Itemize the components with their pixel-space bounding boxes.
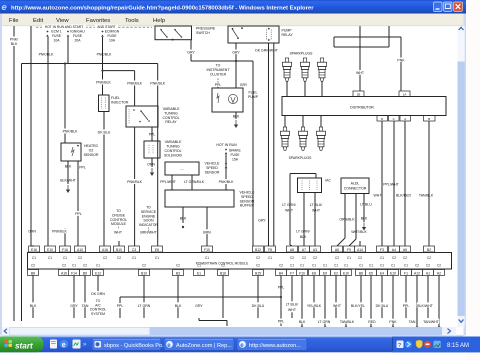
svg-text:BRAKE: BRAKE [229, 149, 241, 153]
IAC feed loop [290, 174, 316, 179]
svg-text:CONTROL: CONTROL [164, 149, 181, 153]
svg-text:GRY: GRY [187, 50, 195, 54]
menu bar [0, 14, 466, 27]
svg-text:LT GRN/BLK: LT GRN/BLK [184, 180, 205, 184]
wire GRY to B12 [236, 61, 253, 246]
svg-text:O2: O2 [89, 148, 94, 152]
svg-text:A14: A14 [357, 248, 363, 252]
bus elbow GRY [199, 318, 227, 326]
svg-text:C1: C1 [96, 264, 100, 268]
svg-text:BLK: BLK [361, 217, 368, 221]
svg-text:A16: A16 [61, 271, 67, 275]
label WHT row1 [333, 302, 342, 308]
distributor terminal 1A [399, 91, 410, 97]
svg-text:SERVICE: SERVICE [141, 210, 157, 214]
PCM bottom terminal B3 [173, 264, 184, 276]
O2 ground BLK BLK/WHT [60, 161, 76, 193]
ALDL connector [341, 178, 369, 194]
svg-text:PPL: PPL [149, 133, 156, 137]
svg-text:DK GRN/WHT: DK GRN/WHT [255, 48, 278, 52]
svg-text:TAN/BLK: TAN/BLK [340, 320, 355, 324]
svg-text:BLK: BLK [175, 304, 182, 308]
svg-text:BLK: BLK [233, 115, 240, 119]
PCM bottom terminal F7 [287, 264, 298, 276]
svg-text:SYSTEM: SYSTEM [91, 312, 105, 316]
spark plug bottom 2 [298, 116, 307, 151]
svg-text:CONTROL: CONTROL [110, 218, 127, 222]
dashed hot-in-run banner [36, 25, 152, 30]
svg-text:SPARKPLUGS: SPARKPLUGS [290, 52, 313, 56]
svg-text:E10: E10 [343, 271, 349, 275]
titlebar close button [454, 2, 463, 12]
svg-text:Help: Help [153, 18, 166, 24]
svg-text:B2: B2 [427, 248, 431, 252]
svg-text:SPARKPLUGS: SPARKPLUGS [289, 156, 312, 160]
svg-text:C2: C2 [31, 264, 35, 268]
svg-text:DK BLU: DK BLU [98, 131, 111, 135]
wire below PCM terminal x406 [405, 276, 407, 319]
label DK BLU row1 [250, 302, 266, 308]
svg-text:PNK/: PNK/ [10, 38, 18, 42]
svg-text:BLK: BLK [300, 235, 307, 239]
svg-text:?: ? [398, 343, 401, 349]
svg-text:C1: C1 [268, 256, 272, 260]
fuel pump relay [228, 26, 293, 43]
titlebar restore button [444, 2, 453, 12]
fuel pump ground BLK [233, 112, 240, 128]
svg-text:10A: 10A [53, 39, 60, 43]
label LT GRN row2 [316, 319, 332, 325]
spark plug top 2 [300, 58, 309, 97]
svg-text:TAN: TAN [82, 304, 89, 308]
fuel injector [99, 95, 129, 112]
svg-text:F9: F9 [347, 248, 351, 252]
wire LT GRN/BLK IAC to A7 [296, 193, 310, 247]
wire below PCM terminal x74 [73, 276, 75, 319]
svg-text:YEL/BLK: YEL/BLK [307, 304, 322, 308]
wire below PCM terminal x178 [177, 276, 179, 319]
svg-text:FUSE: FUSE [52, 34, 62, 38]
PCM top terminal E16 [29, 246, 40, 260]
svg-text:A1: A1 [426, 271, 430, 275]
svg-text:C1: C1 [334, 264, 338, 268]
wire PPL elbow down [113, 297, 127, 318]
svg-text:WHT: WHT [285, 209, 294, 213]
svg-text:C1: C1 [380, 264, 384, 268]
svg-text:PNK/BLK: PNK/BLK [127, 82, 142, 86]
wire PNK to distributor 1A [396, 37, 407, 91]
svg-text:A3: A3 [313, 248, 317, 252]
PCM top terminal A8 [287, 246, 298, 260]
wire below PCM terminal x258 [257, 276, 259, 319]
svg-text:F10: F10 [299, 271, 305, 275]
distributor terminal B [424, 116, 436, 122]
svg-text:....: .... [179, 166, 184, 171]
label TAN row2 [408, 319, 417, 325]
wire PPL O2 to A10 [74, 161, 86, 246]
wire relay out 2 [273, 43, 275, 246]
svg-text:LT GRN/: LT GRN/ [296, 230, 310, 234]
svg-text:WHT: WHT [333, 304, 342, 308]
svg-text:PPL/WHT: PPL/WHT [383, 183, 399, 187]
svg-text:HOT IN RUN: HOT IN RUN [216, 143, 237, 147]
label BLK row1 [174, 302, 183, 308]
svg-text:E1: E1 [197, 271, 201, 275]
svg-text:C1: C1 [300, 264, 304, 268]
label DK GRN/WHT relay [255, 47, 280, 52]
system tray [392, 337, 480, 353]
svg-text:LT BLU/: LT BLU/ [310, 203, 323, 207]
svg-text:B4: B4 [279, 271, 283, 275]
svg-text:C2: C2 [358, 256, 362, 260]
label LT GRN row1 [136, 302, 152, 308]
PCM bottom terminal F14 [69, 264, 80, 276]
label PPL row1 [402, 302, 411, 308]
wire GRY to fuel pump [236, 61, 248, 88]
svg-text:GRY: GRY [258, 219, 266, 223]
svg-text:C1: C1 [132, 256, 136, 260]
svg-text:C2: C2 [221, 264, 225, 268]
svg-text:C1: C1 [63, 256, 67, 260]
distributor terminal D [377, 116, 388, 122]
svg-text:ECM 1: ECM 1 [51, 30, 61, 34]
svg-text:INDICATOR: INDICATOR [139, 223, 158, 227]
PCM bottom terminal F1 [401, 264, 412, 276]
svg-text:ALDL: ALDL [351, 181, 360, 185]
wire below PCM terminal x336 [335, 276, 337, 319]
spark plug bottom 1 [280, 116, 289, 151]
svg-text:TAN: TAN [409, 320, 416, 324]
svg-text:BLK/WHT: BLK/WHT [417, 304, 433, 308]
PCM top terminal A6 [332, 246, 343, 260]
PCM top terminal B12 [253, 246, 264, 260]
svg-text:15A: 15A [232, 157, 239, 161]
svg-text:A7: A7 [302, 248, 306, 252]
svg-text:start: start [15, 341, 33, 350]
PCM bottom terminal E4 [377, 264, 388, 276]
svg-text:C1: C1 [72, 264, 76, 268]
svg-text:File: File [9, 18, 19, 24]
svg-text:C2: C2 [117, 256, 121, 260]
wire below PCM terminal x314 [313, 276, 315, 319]
note to cruise control module [110, 209, 127, 246]
wire left rail 3 [30, 26, 32, 246]
spark plug bottom 3 [316, 116, 325, 151]
PCM top terminal A5 [400, 246, 411, 260]
svg-text:FUEL: FUEL [249, 91, 258, 95]
wire below PCM terminal x223 [222, 276, 224, 319]
svg-text:E2: E2 [334, 271, 338, 275]
svg-text:C2: C2 [313, 256, 317, 260]
svg-text:C1: C1 [404, 264, 408, 268]
spark plug top 3 [317, 58, 326, 97]
PCM bottom terminal A12 [412, 264, 423, 276]
vertical scrollbar [458, 26, 465, 327]
svg-text:INSTRUMENT: INSTRUMENT [207, 68, 231, 72]
svg-text:C1: C1 [344, 264, 348, 268]
svg-text:TUNING: TUNING [166, 145, 180, 149]
wire ORN/BLK ALDL to A6 [337, 194, 355, 247]
svg-text:C1: C1 [48, 256, 52, 260]
svg-text:C1: C1 [155, 256, 159, 260]
PCM bottom terminal B9 [80, 264, 91, 276]
svg-text:PNK/BLK: PNK/BLK [150, 82, 165, 86]
svg-text:C2: C2 [426, 264, 430, 268]
svg-text:C1: C1 [347, 256, 351, 260]
PCM bottom terminal A1 [423, 264, 434, 276]
svg-text:PRESSURE: PRESSURE [196, 27, 216, 31]
PCM top terminal A14 [355, 246, 366, 260]
wire LT GRN/BLK vss [184, 175, 205, 190]
svg-text:PPL: PPL [403, 304, 410, 308]
svg-text:TAN/BLK: TAN/BLK [419, 194, 434, 198]
wire below PCM terminal x144 [143, 276, 145, 319]
svg-text:C1: C1 [205, 256, 209, 260]
svg-text:BUFFER: BUFFER [240, 204, 254, 208]
svg-text:C: C [393, 117, 395, 121]
note to service engine soon [139, 206, 158, 235]
svg-text:LT GRN: LT GRN [318, 320, 331, 324]
svg-text:C2: C2 [403, 256, 407, 260]
svg-text:C2: C2 [62, 264, 66, 268]
PCM bottom terminal B16 [218, 264, 229, 276]
wire PPL to fuel pump [215, 83, 222, 88]
svg-text:BLK: BLK [11, 42, 18, 46]
pressure switch (oil) [155, 26, 216, 41]
svg-text:BRN/WHT: BRN/WHT [140, 230, 157, 234]
wire below PCM terminal x428 [427, 276, 429, 319]
svg-text:C2: C2 [279, 264, 283, 268]
svg-text:B8: B8 [359, 271, 363, 275]
solenoid ground ORN [147, 158, 155, 176]
wire below PCM terminal x292 [291, 276, 293, 319]
svg-text:FUSE: FUSE [230, 153, 240, 157]
label RED row2 [368, 319, 377, 325]
svg-text:http://www.autozone.com/shoppi: http://www.autozone.com/shopping/repairG… [11, 5, 314, 11]
svg-text:A2: A2 [437, 271, 441, 275]
vehicle speed sensor buffer [165, 190, 255, 208]
svg-text:B9: B9 [83, 271, 87, 275]
wire LT BLU/WHT IAC to A3 [310, 193, 323, 247]
svg-text:IGN/GAU: IGN/GAU [70, 30, 85, 34]
wire horizontal y37 [334, 36, 401, 38]
bus horizontal y297 [120, 296, 281, 298]
label BLK row1 [29, 302, 38, 308]
svg-text:B16: B16 [220, 271, 226, 275]
svg-text:C2: C2 [427, 256, 431, 260]
svg-text:WHT/BLK: WHT/BLK [351, 230, 367, 234]
PCM bottom terminal E1 [194, 264, 205, 276]
quick launch icons [50, 340, 87, 350]
svg-text:10A: 10A [109, 39, 116, 43]
PCM bottom terminal B8 [28, 264, 39, 276]
svg-text:2B: 2B [357, 92, 361, 96]
svg-text:C2: C2 [415, 264, 419, 268]
window title bar [0, 0, 466, 14]
PCM bottom terminal A16 [59, 264, 70, 276]
fuel pump [212, 88, 259, 112]
variable tuning control solenoid [144, 140, 183, 158]
svg-text:C2: C2 [83, 264, 87, 268]
wire BLK/RED dist A to A5 [396, 121, 411, 246]
svg-text:e: e [167, 342, 171, 349]
svg-text:PPL: PPL [117, 304, 124, 308]
svg-text:TO: TO [216, 64, 221, 68]
svg-text:BRN: BRN [203, 230, 211, 234]
distributor terminal C [389, 116, 400, 122]
svg-text:SOON: SOON [143, 219, 154, 223]
svg-text:C2: C2 [290, 256, 294, 260]
svg-text:GRY: GRY [240, 83, 248, 87]
PCM bottom terminal E9 [320, 264, 331, 276]
svg-text:CLUSTER: CLUSTER [210, 73, 227, 77]
wire below PCM terminal x382 [381, 276, 383, 319]
svg-text:B12: B12 [255, 248, 261, 252]
svg-text:PPL: PPL [75, 212, 82, 216]
label TAN/BLK row2 [339, 319, 355, 325]
wire PPL/WHT vss [160, 175, 176, 190]
svg-text:A4: A4 [392, 248, 396, 252]
svg-text:FUEL: FUEL [111, 96, 120, 100]
svg-text:E9: E9 [323, 271, 327, 275]
svg-text:PNK/BLK: PNK/BLK [97, 53, 112, 57]
svg-text:SWITCH: SWITCH [196, 31, 210, 35]
svg-text:C1: C1 [32, 256, 36, 260]
svg-text:A8: A8 [290, 248, 294, 252]
svg-text:A10: A10 [77, 248, 83, 252]
svg-text:PPL: PPL [278, 320, 285, 324]
wire PPL relay to solenoid [149, 127, 156, 141]
svg-text:LT BLU: LT BLU [360, 203, 372, 207]
PCM top terminal A3 [310, 246, 321, 260]
svg-text:E12: E12 [95, 271, 101, 275]
svg-text:VEHICLE: VEHICLE [240, 191, 256, 195]
svg-text:ORN: ORN [28, 229, 36, 233]
svg-text:F8: F8 [268, 248, 272, 252]
wire below PCM terminal x417 [416, 276, 418, 329]
svg-text:C2: C2 [335, 256, 339, 260]
wire E16 up [31, 245, 34, 247]
svg-text:VARIABLE: VARIABLE [163, 107, 181, 111]
svg-text:SPEED: SPEED [241, 195, 253, 199]
svg-text:LT GRN: LT GRN [138, 304, 151, 308]
svg-text:sbpos - QuickBooks Po...: sbpos - QuickBooks Po... [104, 343, 167, 349]
PCM bottom terminal E8 [309, 264, 320, 276]
svg-text:E4: E4 [380, 271, 384, 275]
svg-text:SENSOR: SENSOR [205, 170, 220, 174]
svg-text:1A: 1A [403, 92, 407, 96]
svg-text:PPL: PPL [79, 166, 86, 170]
wire relay feed [134, 71, 136, 106]
wire left rail 2 [21, 64, 23, 322]
svg-text:C2: C2 [302, 256, 306, 260]
svg-text:PNK/BLK: PNK/BLK [39, 53, 54, 57]
distributor [282, 97, 446, 116]
svg-text:TAN/WHT: TAN/WHT [423, 320, 440, 324]
wire below PCM terminal x33 [32, 276, 34, 319]
svg-text:WHT: WHT [374, 194, 383, 198]
pnk/blk bus horizontal [22, 62, 158, 64]
sparkplugs top label [290, 52, 313, 56]
svg-text:RELAY: RELAY [282, 33, 294, 37]
label GRY row1 [70, 302, 79, 308]
svg-text:TO: TO [146, 206, 151, 210]
PCM top terminal A16 [100, 246, 111, 260]
svg-text:TO: TO [116, 209, 121, 213]
wire below PCM terminal x346 [345, 276, 347, 329]
svg-text:DISTRIBUTOR: DISTRIBUTOR [350, 105, 374, 109]
svg-text:B8: B8 [31, 271, 35, 275]
svg-text:TUNING: TUNING [164, 111, 178, 115]
svg-text:F3: F3 [380, 248, 384, 252]
wire WHT to distributor 2B [355, 26, 366, 91]
fuse BRAKE 15A [216, 143, 241, 190]
svg-text:Favorites: Favorites [86, 18, 110, 24]
svg-text:C2: C2 [142, 264, 146, 268]
wire F16 up [52, 228, 68, 246]
svg-text:e: e [62, 342, 66, 349]
label BLK/YEL row1 [350, 302, 366, 308]
wire below PCM terminal x325 [324, 276, 326, 329]
svg-text:GRY: GRY [70, 304, 78, 308]
wire PPL B4 [274, 276, 288, 327]
PCM top terminal E10 [45, 246, 56, 260]
powertrain control module box [28, 253, 452, 270]
svg-text:IAC: IAC [325, 179, 331, 183]
svg-text:SENSOR: SENSOR [240, 199, 255, 203]
wire stub A14 [359, 241, 361, 246]
svg-text:B10: B10 [116, 248, 122, 252]
svg-text:A: A [404, 117, 406, 121]
svg-text:E10: E10 [390, 271, 396, 275]
PCM bottom terminal E12 [93, 264, 104, 276]
svg-text:ORN: ORN [147, 163, 155, 167]
taskbar [0, 337, 480, 353]
wire O2 feed [62, 64, 78, 144]
svg-text:SENSOR: SENSOR [84, 153, 99, 157]
svg-text:PNK/BLK: PNK/BLK [96, 81, 111, 85]
wire horizontal y47 [334, 46, 389, 48]
svg-text:INJECTOR: INJECTOR [111, 101, 129, 105]
svg-text:C2: C2 [103, 256, 107, 260]
wire riser x334 [333, 37, 335, 47]
svg-text:E8: E8 [312, 271, 316, 275]
svg-text:20A: 20A [74, 39, 81, 43]
svg-text:F10: F10 [204, 248, 210, 252]
wire PNK/BLK left 1 [10, 26, 20, 321]
svg-text:E8: E8 [155, 248, 159, 252]
variable tuning control relay [126, 106, 180, 127]
svg-text:CONNECTOR: CONNECTOR [344, 186, 367, 190]
PCM bottom terminal B15 [253, 264, 264, 276]
svg-text:PUMP: PUMP [282, 29, 293, 33]
svg-text:DK BLU: DK BLU [252, 304, 265, 308]
svg-text:BLK/RED: BLK/RED [396, 194, 411, 198]
svg-text:A5: A5 [403, 248, 407, 252]
PCM top terminal F16 [60, 246, 71, 260]
svg-text:SPEED: SPEED [206, 166, 218, 170]
svg-text:LT GRN/: LT GRN/ [282, 203, 296, 207]
svg-text:CONTROL: CONTROL [162, 116, 179, 120]
svg-text:RELAY: RELAY [165, 120, 177, 124]
fuse ECM/IGN 10A [96, 30, 120, 96]
svg-text:PNK: PNK [389, 320, 397, 324]
PCM top terminal F9 [344, 246, 355, 260]
wire BRN buffer to F10 [202, 207, 213, 246]
svg-text:C2: C2 [437, 264, 441, 268]
PCM bottom terminal E5 [366, 264, 377, 276]
svg-text:FUSE: FUSE [107, 34, 117, 38]
